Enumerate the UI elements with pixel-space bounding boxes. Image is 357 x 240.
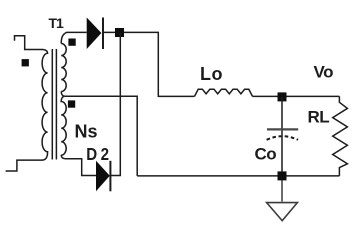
wire secondary bottom lead to D2 anode <box>61 155 96 176</box>
capacitor Co top plate <box>267 128 298 130</box>
resistor RL <box>333 96 348 175</box>
polarity dot secondary lower <box>68 100 75 107</box>
cathode bar D1 <box>102 18 104 50</box>
polarity dot primary <box>22 59 29 66</box>
transformer core <box>52 49 56 160</box>
wire center tap to bottom rail <box>61 92 137 176</box>
wire primary top lead <box>15 36 44 50</box>
wire secondary top lead <box>61 32 86 43</box>
ground symbol <box>267 203 298 221</box>
capacitor Co lead <box>281 97 283 172</box>
cathode bar D2 <box>109 161 111 192</box>
svg-text:D2: D2 <box>86 144 112 165</box>
secondary lower winding Ns <box>61 96 66 155</box>
wire D2 cathode to node A <box>111 32 120 175</box>
junction output bottom <box>278 171 287 180</box>
inductor Lo <box>195 89 253 96</box>
wire Lo to RL top <box>253 95 340 97</box>
secondary upper winding <box>61 44 66 92</box>
wire bottom rail <box>137 175 339 177</box>
svg-text:Co: Co <box>255 145 277 164</box>
wire primary bottom lead <box>6 160 43 171</box>
wire node A rail to Lo <box>104 32 195 96</box>
diode D2 <box>96 161 110 192</box>
primary winding of T1 <box>42 50 47 161</box>
ground lead <box>281 180 283 202</box>
svg-text:RL: RL <box>308 108 330 127</box>
junction Vo node <box>278 92 287 101</box>
diode D1 <box>87 18 102 50</box>
junction node A <box>115 28 124 37</box>
svg-text:Ns: Ns <box>75 122 98 142</box>
svg-text:T1: T1 <box>49 15 65 31</box>
polarity dot secondary upper <box>68 39 75 46</box>
svg-text:Vo: Vo <box>314 63 334 82</box>
svg-text:Lo: Lo <box>200 64 223 84</box>
capacitor Co bottom plate <box>267 136 298 140</box>
